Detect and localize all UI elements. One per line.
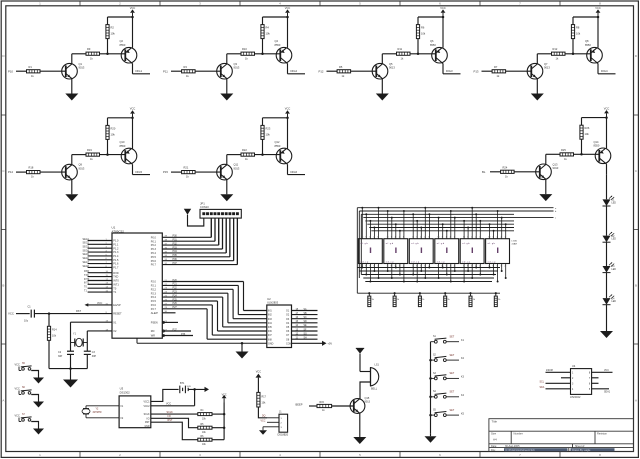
pin 4 U4 wire SDA: [546, 388, 571, 390]
svg-text:9013: 9013: [79, 66, 85, 70]
wire DS6 bottom pin 3: [497, 264, 499, 282]
pin COM U2 wire: [292, 342, 323, 344]
wire resistor to Q2 base: [255, 154, 281, 156]
ground button column: [425, 436, 437, 443]
svg-text:VCC: VCC: [130, 107, 136, 111]
svg-text:P1.5: P1.5: [113, 259, 119, 262]
wire BL to R base input: [490, 171, 501, 173]
capacitor C2 30P: [67, 350, 74, 352]
svg-text:9013: 9013: [544, 66, 550, 70]
node junction: [479, 220, 481, 222]
node junction: [438, 217, 440, 219]
pin P2.4 U1 wire: [162, 296, 222, 298]
pin 5 U4 wire: [592, 388, 609, 390]
svg-text:P26: P26: [173, 302, 178, 305]
wire JP1 pin7 down: [225, 218, 227, 253]
svg-text:P03: P03: [173, 246, 178, 249]
wire R to Q base: [506, 70, 532, 72]
pin P0.4 U1 wire: [162, 252, 226, 254]
wire bus wrap verticals: [356, 208, 358, 294]
svg-text:RXD: RXD: [113, 272, 118, 275]
svg-text:7: 7: [391, 237, 392, 239]
node junction: [395, 267, 397, 269]
node battery junction: [193, 388, 196, 391]
pin 6 U4 stub: [592, 382, 599, 384]
svg-text:SEG2: SEG2: [83, 242, 90, 245]
wire DS6 top pin 5: [505, 224, 507, 239]
node VCC rail junction: [131, 117, 134, 120]
resistor R33 digit 3 current limit: [419, 293, 421, 296]
wire collector to base resistor: [227, 154, 241, 156]
display DS6 7-segment digit body: [486, 239, 510, 264]
ground LED chain: [600, 331, 613, 338]
svg-text:P2.2: P2.2: [151, 288, 157, 291]
svg-text:7: 7: [467, 237, 468, 239]
node junction: [493, 274, 495, 276]
svg-text:VCC: VCC: [595, 6, 601, 10]
wire Q7 emitter down: [536, 79, 538, 94]
pin 8 U4 wire VCC: [592, 371, 613, 373]
svg-text:1: 1: [454, 237, 455, 239]
node junction: [446, 274, 448, 276]
svg-text:10u: 10u: [24, 319, 29, 322]
svg-text:11: 11: [463, 266, 465, 268]
power VCC pull-up bus: [223, 398, 225, 402]
wire DS2 bottom pin 5: [403, 264, 405, 282]
svg-text:10: 10: [412, 237, 414, 239]
node junction: [463, 220, 465, 222]
svg-text:SET: SET: [450, 391, 455, 394]
svg-text:GND: GND: [144, 426, 149, 428]
svg-text:9013: 9013: [389, 66, 395, 70]
pin P1.2 U1: [88, 247, 112, 249]
svg-text:LG36: LG36: [512, 241, 518, 243]
svg-text:a f . g b: a f . g b: [386, 243, 394, 245]
wire DS3 bottom pin 3: [420, 264, 422, 272]
node junction: [412, 274, 414, 276]
pin 7 U4 stub: [592, 377, 599, 379]
wire DS6 top pin 1: [489, 224, 491, 239]
svg-text:5: 5: [369, 266, 370, 268]
display DS5 7-segment digit body: [460, 239, 484, 264]
wire R15 to Q15 base: [332, 405, 354, 407]
svg-text:IN8: IN8: [268, 338, 272, 341]
svg-text:3: 3: [399, 266, 400, 268]
svg-text:SEG5: SEG5: [83, 253, 90, 256]
svg-text:e d . c p: e d . c p: [411, 261, 420, 263]
wire VCC to buzzer: [359, 354, 361, 372]
wire DS5 bottom pin 1: [463, 264, 465, 282]
pin P1.7 U1: [88, 266, 112, 268]
LED D1: [603, 199, 611, 206]
wire fan P2.7 to U2: [207, 338, 267, 340]
wire DS5 top pin 2: [467, 228, 469, 239]
svg-text:P11: P11: [163, 69, 168, 73]
wire DS1 top pin 2: [365, 214, 367, 238]
svg-text:2: 2: [428, 266, 429, 268]
svg-text:P07: P07: [173, 262, 178, 265]
ground below Q9: [65, 194, 78, 201]
wire VCC1 to battery: [151, 389, 179, 401]
svg-text:P0.5: P0.5: [151, 256, 157, 259]
node junction: [378, 277, 380, 279]
svg-text:30-Aug-2005: 30-Aug-2005: [505, 445, 520, 448]
pin 8 JP1: [229, 213, 231, 215]
svg-text:VCC: VCC: [285, 107, 291, 111]
ground below Q13: [539, 194, 552, 201]
wire P10 to R base input: [16, 70, 27, 72]
wire P15 to R base input: [171, 171, 182, 173]
wire DS6 bottom pin 4: [501, 264, 503, 272]
wire P12 to R base input: [327, 70, 338, 72]
svg-text:10: 10: [361, 237, 363, 239]
node junction: [450, 210, 452, 212]
wire I/O to R5: [151, 418, 198, 427]
ground crystal rail: [63, 380, 78, 388]
svg-text:9013: 9013: [79, 166, 85, 170]
pin P3 TXD U1: [88, 276, 112, 278]
svg-text:e d . c p: e d . c p: [386, 261, 395, 263]
wire pull-up to VCC rail: [107, 118, 109, 126]
svg-text:P02: P02: [173, 242, 178, 245]
wire output stub DIG2: [288, 73, 306, 75]
svg-text:P27: P27: [173, 306, 178, 309]
svg-text:e d . c p: e d . c p: [360, 261, 369, 263]
svg-text:VCC: VCC: [15, 414, 20, 417]
resistor R36 digit 6 current limit: [495, 293, 497, 296]
svg-text:3: 3: [501, 266, 502, 268]
svg-text:32768Hz: 32768Hz: [93, 412, 103, 414]
wire DS6 top pin 2: [493, 231, 495, 239]
wire pull-up to VCC rail: [417, 17, 419, 25]
svg-text:2: 2: [475, 237, 476, 239]
svg-text:P22: P22: [173, 287, 178, 290]
svg-text:SET: SET: [450, 336, 455, 339]
svg-text:ULN2803: ULN2803: [267, 301, 279, 305]
svg-text:SCLK: SCLK: [167, 411, 174, 414]
svg-text:P2.4: P2.4: [151, 296, 157, 299]
node junction: [387, 210, 389, 212]
node junction: [365, 274, 367, 276]
resistor R23 10k pull-up: [261, 125, 264, 139]
wire fan P2.5 drop: [217, 301, 219, 331]
wire fan P2.7 drop: [206, 309, 208, 339]
ground button S3: [33, 429, 44, 435]
svg-text:B: B: [635, 284, 637, 288]
wire X2 pin to crystal: [87, 330, 112, 332]
pin 3 JP1: [210, 213, 212, 215]
svg-text:5: 5: [420, 266, 421, 268]
svg-text:RST: RST: [76, 310, 81, 313]
wire Q12 collector down: [286, 163, 287, 164]
display DS3 7-segment digit body: [409, 239, 433, 264]
wire DS4 bottom pin 3: [446, 264, 448, 275]
wire collector to base resistor: [382, 53, 396, 55]
wire fan P2.2 drop: [232, 289, 234, 318]
svg-text:10k: 10k: [111, 32, 116, 36]
wire node to pull-up resistor: [581, 139, 583, 154]
node junction: [501, 217, 503, 219]
pin P2.0 U1 wire: [162, 281, 243, 283]
wire DS4 bottom pin 5: [454, 264, 456, 272]
svg-text:R18: R18: [29, 166, 34, 170]
svg-text:P1.6: P1.6: [113, 263, 119, 266]
power VCC buzzer: [356, 348, 364, 353]
svg-text:Title: Title: [492, 420, 498, 424]
svg-text:INT0: INT0: [84, 278, 90, 281]
resistor R18 1k (base input): [27, 171, 41, 174]
wire GND drop: [241, 343, 243, 351]
transistor Q11 9013 NPN: [217, 164, 233, 180]
svg-text:4: 4: [395, 237, 396, 239]
wire DS2 top pin 1: [387, 211, 389, 239]
wire DS5 top pin 1: [463, 221, 465, 239]
wire Q14 collector to LED chain: [606, 174, 608, 199]
node junction: [412, 213, 414, 215]
wire R to Q base: [195, 171, 221, 173]
switch S4 pushbutton: [429, 396, 432, 399]
display DS4 7-segment digit body: [435, 239, 459, 264]
svg-text:Q13: Q13: [553, 162, 558, 166]
node junction: [378, 207, 380, 209]
wire VCC rail: [263, 117, 288, 119]
wire R to Q base: [195, 70, 221, 72]
svg-text:D:\Protel\clock\sheet1.Sch: D:\Protel\clock\sheet1.Sch: [506, 449, 536, 452]
svg-text:INT1: INT1: [113, 283, 119, 286]
svg-text:1: 1: [479, 237, 480, 239]
transistor Q4 8550 PNP: [276, 47, 292, 63]
svg-text:VCC: VCC: [15, 363, 20, 366]
wire DS5 bottom pin 5: [479, 264, 481, 275]
resistor R35 digit 5 current limit: [470, 293, 472, 296]
svg-text:SH: SH: [304, 338, 308, 340]
wire output stub DIG6: [288, 174, 306, 176]
node junction pull-up: [106, 53, 109, 56]
node junction: [403, 210, 405, 212]
svg-text:P00: P00: [173, 235, 178, 238]
wire pull-up to VCC rail: [581, 118, 583, 126]
wire DS5 bottom pin 2: [467, 264, 469, 272]
svg-text:VCC: VCC: [261, 420, 266, 422]
svg-text:9013: 9013: [365, 401, 371, 404]
transistor Q3 9013 NPN: [217, 63, 233, 79]
switch S3 pushbutton: [429, 377, 432, 380]
node VCC rail junction: [286, 117, 289, 120]
svg-text:LED: LED: [612, 202, 617, 204]
ground below Q5: [376, 94, 389, 101]
border zone ticks top/bottom: [79, 1, 81, 6]
svg-text:R21: R21: [184, 166, 189, 170]
svg-text:P0.2: P0.2: [151, 244, 157, 247]
wire fan P0.3 riser: [222, 218, 224, 249]
wire S2 to label: [446, 359, 459, 361]
wire DS4 bottom pin 4: [450, 264, 452, 282]
svg-text:10: 10: [387, 237, 389, 239]
wire VCC rail: [582, 117, 607, 119]
wire display segment top bus lines: [357, 207, 553, 209]
wire node to pull-up resistor: [262, 39, 264, 54]
wire DS1 bottom pin 5: [378, 264, 380, 279]
wire DS1 top pin 1: [361, 208, 363, 239]
svg-text:2: 2: [479, 266, 480, 268]
wire S1 to label: [446, 341, 459, 343]
wire DS4 top pin 5: [454, 218, 456, 239]
wire DS5 top pin 5: [479, 221, 481, 239]
node junction: [387, 270, 389, 272]
svg-text:R22: R22: [242, 148, 247, 152]
svg-text:10k: 10k: [585, 132, 590, 136]
wire DS3 bottom pin 2: [416, 264, 418, 282]
wire J1 pin3 to ground: [263, 426, 267, 428]
wire fan P0.5 riser: [229, 218, 231, 257]
svg-text:SD: SD: [304, 321, 308, 323]
svg-text:Q3: Q3: [234, 62, 238, 66]
svg-text:LED: LED: [612, 269, 617, 271]
svg-text:IN4: IN4: [268, 322, 272, 325]
svg-text:10k: 10k: [421, 32, 426, 36]
wire DS2 bottom pin 2: [391, 264, 393, 279]
wire Q11 emitter down: [226, 180, 228, 195]
display DS2 7-segment digit body: [384, 239, 408, 264]
pin P0.1 U1 wire: [162, 240, 215, 242]
pin 4 JP1: [214, 213, 216, 215]
svg-text:TXD: TXD: [84, 274, 89, 277]
svg-text:P37: P37: [173, 328, 178, 331]
switch S1 pushbutton: [431, 341, 435, 343]
wire Q2 collector down: [131, 63, 132, 64]
svg-text:P2.7: P2.7: [151, 308, 157, 311]
wire VCC to Q10 emitter: [132, 118, 134, 149]
pin P3 RXD U1: [88, 272, 112, 274]
node junction: [369, 281, 371, 283]
wire collector to base resistor: [72, 53, 86, 55]
svg-text:U2: U2: [267, 297, 271, 301]
wire ground rail: [49, 368, 87, 370]
svg-text:RST: RST: [168, 419, 173, 422]
wire fan P0.1 riser: [214, 218, 216, 241]
svg-text:8: 8: [442, 266, 443, 268]
svg-text:VCC: VCC: [256, 370, 261, 373]
power VCC: [597, 13, 599, 17]
svg-text:SEG4: SEG4: [83, 249, 90, 252]
svg-text:P10: P10: [8, 69, 13, 73]
svg-text:P15: P15: [163, 170, 168, 174]
IC U1 AT89C52 body: [112, 233, 162, 338]
wire fan P2.0 drop: [243, 282, 245, 311]
crystal Y2 32768Hz: [86, 405, 119, 407]
pin O2 U2 stub: [292, 314, 318, 316]
border zone ticks left/right: [1, 114, 6, 116]
wire common to ground: [430, 433, 432, 436]
wire R to Q base: [514, 171, 540, 173]
svg-text:P05: P05: [173, 254, 178, 257]
wire VCC rail: [108, 117, 133, 119]
svg-text:9013: 9013: [234, 166, 240, 170]
node junction pull-up: [580, 153, 583, 156]
svg-text:P0.1: P0.1: [151, 240, 157, 243]
resistor R10 1k (interstage): [241, 52, 255, 55]
wire DS4 top pin 2: [442, 224, 444, 239]
wire Q1 emitter down: [71, 79, 73, 94]
transistor Q12 8550 PNP: [276, 148, 292, 164]
wire DS3 top pin 5: [428, 214, 430, 238]
svg-text:SDA1: SDA1: [604, 390, 611, 393]
svg-text:VCC: VCC: [604, 370, 609, 372]
svg-text:I/O: I/O: [168, 415, 171, 418]
wire R5 to VCC bus: [212, 427, 224, 429]
node junction: [420, 227, 422, 229]
pin P2.5 U1 wire: [162, 300, 217, 302]
node junction: [438, 277, 440, 279]
wire R to Q base: [40, 171, 66, 173]
svg-text:Size: Size: [491, 432, 497, 436]
pin P2.6 U1 wire: [162, 304, 212, 306]
svg-text:R11: R11: [398, 47, 403, 51]
wire fan P0.2 riser: [218, 218, 220, 245]
svg-text:a f . g b: a f . g b: [411, 243, 419, 245]
wire DS4 top pin 3: [446, 231, 448, 239]
wire DS2 bottom pin 1: [387, 264, 389, 272]
svg-text:9013: 9013: [234, 66, 240, 70]
svg-text:e d . c p: e d . c p: [488, 261, 497, 263]
svg-text:P1.0: P1.0: [113, 240, 119, 243]
svg-text:DIG6: DIG6: [291, 170, 298, 174]
svg-text:R2: R2: [111, 26, 115, 30]
svg-text:3: 3: [424, 266, 425, 268]
svg-text:BEEP: BEEP: [296, 402, 303, 406]
svg-text:RXD: RXD: [84, 270, 89, 273]
wire node to R14: [48, 314, 50, 327]
wire DS1 top pin 5: [378, 208, 380, 239]
node junction: [475, 267, 477, 269]
wire Q6 collector down: [442, 63, 443, 64]
crystal Y1 12MHz: [74, 339, 76, 347]
node junction: [501, 270, 503, 272]
svg-text:R24: R24: [503, 165, 508, 169]
node junction: [391, 217, 393, 219]
wire S2 to ground: [31, 395, 38, 402]
svg-text:10: 10: [437, 237, 439, 239]
ground below U2 wire: [236, 352, 249, 359]
ground below Q11: [220, 194, 233, 201]
resistor R26 10k pull-up: [580, 125, 583, 139]
pin 9 JP1: [233, 213, 235, 215]
title block highlighted file path: [504, 448, 568, 451]
svg-text:+5V: +5V: [328, 342, 333, 345]
svg-text:2: 2: [403, 266, 404, 268]
svg-text:P2.6: P2.6: [151, 304, 157, 307]
svg-text:8550: 8550: [594, 144, 600, 148]
wire VCC to C1: [16, 313, 30, 315]
IC U4 AT24C02 body: [571, 369, 592, 395]
transistor Q13 9013 NPN: [536, 164, 552, 180]
svg-text:Q14: Q14: [594, 140, 599, 144]
wire pull-up to VCC rail: [572, 17, 574, 25]
svg-text:IN5: IN5: [268, 326, 272, 329]
pin P2.1 U1 wire: [162, 284, 238, 286]
node junction: [497, 281, 499, 283]
node junction: [365, 213, 367, 215]
wire LED D2 to D3: [606, 242, 608, 266]
node junction pull-up: [106, 153, 109, 156]
svg-text:1: 1: [403, 237, 404, 239]
node junction: [471, 277, 473, 279]
svg-text:P2.0: P2.0: [151, 281, 157, 284]
svg-text:4: 4: [496, 237, 497, 239]
wire node to pull-up resistor: [107, 39, 109, 54]
svg-text:8: 8: [492, 266, 493, 268]
wire Q13 emitter down: [545, 180, 547, 195]
